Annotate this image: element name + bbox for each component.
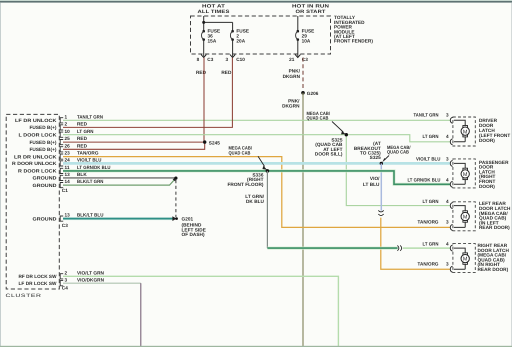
svg-text:LT GRN: LT GRN	[423, 241, 440, 246]
svg-text:FUSED B(+): FUSED B(+)	[30, 140, 57, 145]
svg-text:TAN/ORG: TAN/ORG	[418, 261, 439, 266]
wire TAN/ORG pin23 to left rear latch pin3	[63, 157, 450, 228]
svg-text:13: 13	[65, 213, 71, 218]
svg-text:BLK/LT BLU: BLK/LT BLU	[77, 213, 104, 218]
svg-text:LT GRN/DK BLU: LT GRN/DK BLU	[408, 178, 441, 183]
svg-text:RED: RED	[77, 143, 88, 148]
ground point G201	[172, 216, 206, 237]
svg-text:TAN/LT GRN: TAN/LT GRN	[414, 113, 439, 118]
svg-text:ALL TIMES: ALL TIMES	[198, 9, 231, 15]
wire fuse F36 to connector	[203, 40, 205, 57]
svg-text:24: 24	[65, 158, 71, 163]
label HOT AT ALL TIMES	[198, 4, 231, 16]
svg-text:DOOR): DOOR)	[479, 138, 495, 143]
svg-text:VIO/LT GRN: VIO/LT GRN	[77, 270, 105, 275]
pin bracket 14	[60, 183, 63, 188]
splice S325	[345, 133, 348, 136]
arrow to breakout splice	[382, 156, 389, 163]
wire VIO/LT GRN C4 pin2	[63, 276, 338, 346]
svg-text:RF DR LOCK SW: RF DR LOCK SW	[19, 274, 58, 279]
wire RED pin25 to S245	[63, 141, 205, 143]
pin bracket 26	[60, 147, 63, 152]
wire BLK/LT BLU C3 pin13 to G201	[63, 217, 173, 220]
svg-text:DKGRN: DKGRN	[282, 104, 300, 109]
label VIO/LT BLU mid	[363, 176, 380, 187]
svg-text:REAR DOOR): REAR DOOR)	[478, 267, 509, 272]
wire TAN/LT GRN pin1 to driver latch pin3	[63, 119, 450, 121]
power module box TIPM	[191, 16, 331, 54]
svg-text:4: 4	[446, 178, 449, 183]
wire PNK/DKGRN dashed segment	[302, 58, 304, 91]
svg-text:LF DR LOCK SW: LF DR LOCK SW	[19, 281, 58, 286]
svg-text:FUSED B(+): FUSED B(+)	[30, 125, 57, 130]
label RIGHT REAR DOOR LATCH (MEGA CAB/QUAD CAB) (IN RIGHT REAR DOOR)	[478, 243, 510, 272]
pin bracket 23	[60, 154, 63, 159]
label PASSENGER DOOR LATCH (RIGHT FRONT DOOR)	[479, 160, 509, 189]
fuse F36 15A	[202, 28, 221, 43]
svg-text:BLK: BLK	[77, 172, 87, 177]
svg-text:23: 23	[65, 151, 71, 156]
motor U1 driver door latch	[450, 117, 475, 146]
label (AT BREAKOUT TO C325) S325	[354, 141, 381, 160]
bus wire hot at all times	[204, 16, 233, 31]
splice S245	[203, 140, 220, 145]
splice G206	[301, 91, 319, 96]
svg-text:RED: RED	[196, 70, 207, 75]
wire TAN/ORG C325 to right rear latch pin3	[381, 218, 450, 270]
svg-text:M: M	[463, 129, 468, 135]
label HOT IN RUN OR START	[292, 4, 330, 16]
svg-text:GROUND: GROUND	[33, 217, 58, 222]
wire PNK/DKGRN main vertical	[302, 93, 304, 346]
svg-text:S325: S325	[370, 155, 381, 160]
svg-text:LT BLU: LT BLU	[363, 182, 380, 187]
svg-text:RED: RED	[221, 70, 232, 75]
svg-text:2: 2	[65, 122, 68, 127]
wire LT GRN pin10 to driver latch pin4	[63, 135, 450, 142]
wire RED fuse F36 to splice S245	[203, 58, 205, 143]
svg-text:G201: G201	[182, 217, 194, 222]
junction node ground join	[174, 177, 177, 180]
wire fuse F2 to connector	[232, 40, 234, 57]
svg-text:LR DR UNLOCK: LR DR UNLOCK	[14, 154, 57, 159]
svg-text:FUSED B(+): FUSED B(+)	[30, 147, 57, 152]
svg-text:VIO/LT BLU: VIO/LT BLU	[416, 157, 441, 162]
svg-text:M: M	[463, 172, 468, 178]
svg-text:LT GRN: LT GRN	[423, 134, 440, 139]
wire VIO/DKGRN vertical	[140, 283, 142, 346]
svg-text:DK BLU: DK BLU	[246, 199, 265, 204]
svg-text:VIO/DKGRN: VIO/DKGRN	[77, 277, 105, 282]
svg-text:S245: S245	[209, 140, 220, 145]
label MEGA CAB/QUAD CAB left	[229, 146, 253, 156]
inline connector right rear	[397, 245, 401, 250]
svg-text:R DOOR UNLOCK: R DOOR UNLOCK	[12, 161, 57, 166]
svg-text:3: 3	[446, 157, 449, 162]
svg-text:C3: C3	[62, 223, 68, 228]
splice S336	[266, 169, 270, 173]
svg-text:3: 3	[446, 219, 449, 224]
label DRIVER DOOR LATCH (LEFT FRONT DOOR)	[479, 118, 510, 143]
svg-text:HOT AT: HOT AT	[202, 4, 225, 10]
svg-text:OF DASH): OF DASH)	[182, 232, 205, 237]
svg-text:PNK/: PNK/	[289, 69, 301, 74]
svg-text:4: 4	[446, 134, 449, 139]
label MEGA CAB/QUAD CAB upper	[307, 111, 331, 121]
svg-text:10: 10	[65, 129, 71, 134]
label PNK/DKGRN upper	[283, 69, 301, 79]
label PNK/DKGRN lower	[282, 98, 300, 108]
svg-text:DKGRN: DKGRN	[283, 74, 301, 79]
svg-text:C3: C3	[207, 57, 213, 62]
pin bracket C4-2	[60, 274, 63, 279]
wire RED pin2 to fuse F2	[63, 58, 232, 128]
svg-text:GROUND: GROUND	[33, 183, 58, 188]
svg-text:C1: C1	[62, 188, 68, 193]
svg-text:3: 3	[226, 57, 229, 62]
svg-text:10A: 10A	[302, 39, 311, 44]
svg-text:FRONT FLOOR): FRONT FLOOR)	[227, 182, 263, 187]
svg-text:3: 3	[446, 113, 449, 118]
svg-text:8: 8	[197, 57, 200, 62]
wire S336 gray drop	[266, 171, 268, 248]
connector pin 8 C3	[197, 55, 214, 63]
wire LT GRN/DK BLU to inline connector	[267, 247, 397, 250]
arrow to splice S336	[258, 156, 267, 169]
wire fuse F29 to connector	[297, 40, 299, 57]
arrow to splice S325	[332, 122, 346, 135]
svg-text:M: M	[463, 215, 468, 221]
svg-text:RED: RED	[77, 122, 88, 127]
svg-text:QUAD CAB: QUAD CAB	[229, 150, 251, 155]
pin bracket 24	[60, 161, 63, 166]
label TOTALLY INTEGRATED POWER MODULE (AT LEFT FRONT FENDER)	[334, 15, 373, 44]
arrowhead BLK/LT GRN	[173, 178, 177, 182]
fuse F2 20A	[230, 28, 249, 43]
svg-text:4: 4	[446, 199, 449, 204]
label LEFT REAR DOOR LATCH (MEGA CAB/QUAD CAB) (IN LEFT REAR DOOR)	[479, 201, 511, 230]
svg-text:L DOOR LOCK: L DOOR LOCK	[19, 133, 58, 138]
pin bracket 11	[60, 168, 63, 173]
svg-text:3: 3	[65, 277, 68, 282]
svg-text:VIO/: VIO/	[370, 176, 380, 181]
svg-text:LT GRN/DK BLU: LT GRN/DK BLU	[77, 165, 111, 170]
svg-text:15A: 15A	[208, 39, 217, 44]
svg-text:BLK/LT GRN: BLK/LT GRN	[77, 179, 104, 184]
svg-text:TAN/ORG: TAN/ORG	[418, 219, 439, 224]
svg-text:HOT IN RUN: HOT IN RUN	[292, 4, 330, 10]
svg-text:R DOOR LOCK: R DOOR LOCK	[18, 169, 57, 174]
svg-text:GROUND: GROUND	[33, 176, 58, 181]
junction node on bus	[202, 21, 205, 24]
motor U4 right rear door latch	[450, 244, 475, 273]
wire BLK pin13	[63, 177, 176, 179]
wire VIO/LT BLU pin24 to passenger latch pin3	[63, 162, 450, 165]
wire BLK/LT GRN pin14	[63, 179, 175, 185]
svg-text:LF DR UNLOCK: LF DR UNLOCK	[15, 118, 57, 123]
wire LT GRN branch S325 to left rear latch pin4	[346, 135, 450, 206]
svg-text:LT GRN: LT GRN	[423, 199, 440, 204]
svg-text:PNK/: PNK/	[288, 98, 300, 103]
svg-text:TAN/ORG: TAN/ORG	[77, 151, 99, 156]
svg-text:4: 4	[446, 241, 449, 246]
svg-text:1: 1	[65, 114, 68, 119]
label MEGA CAB/QUAD CAB right	[387, 145, 411, 155]
connector pin 3 C10	[226, 55, 246, 63]
label LT GRN/DK BLU mid	[245, 194, 264, 204]
svg-text:20A: 20A	[236, 39, 245, 44]
svg-text:RED: RED	[77, 136, 88, 141]
svg-text:TAN/LT GRN: TAN/LT GRN	[77, 114, 104, 119]
svg-text:LT GRN: LT GRN	[77, 129, 94, 134]
fuse F29 10A	[296, 28, 315, 43]
svg-text:21: 21	[289, 57, 295, 62]
svg-text:2: 2	[65, 270, 68, 275]
svg-text:QUAD CAB: QUAD CAB	[387, 150, 409, 155]
svg-text:M: M	[463, 257, 468, 263]
pin bracket 10	[60, 132, 63, 137]
wire LT GRN/DK BLU pin11 to passenger latch pin4	[63, 171, 450, 184]
svg-text:C10: C10	[236, 57, 245, 62]
label S336 (RIGHT FRONT FLOOR)	[227, 172, 263, 187]
wire VIO/DKGRN C4 pin3 horizontal	[63, 282, 141, 284]
svg-text:C4: C4	[62, 286, 68, 291]
wire LT GRN connector to right rear latch pin4	[403, 247, 450, 249]
svg-text:14: 14	[65, 179, 71, 184]
svg-text:VIO/LT BLU: VIO/LT BLU	[77, 158, 102, 163]
svg-text:QUAD CAB: QUAD CAB	[307, 116, 329, 121]
svg-text:11: 11	[65, 165, 70, 170]
svg-text:CLUSTER: CLUSTER	[6, 293, 42, 299]
pin bracket C3-13	[60, 216, 63, 221]
cluster module box	[6, 114, 59, 289]
pin bracket 2	[60, 125, 63, 130]
label S325 (QUAD CAB AT LEFT DOOR SILL)	[315, 137, 343, 156]
pin bracket 25	[60, 140, 63, 145]
svg-text:3: 3	[446, 261, 449, 266]
svg-text:FRONT FENDER): FRONT FENDER)	[334, 39, 373, 44]
pin bracket 1	[60, 118, 63, 123]
inline connector C325 vertical	[378, 210, 383, 215]
svg-text:25: 25	[65, 136, 71, 141]
svg-text:OR START: OR START	[296, 9, 326, 15]
motor U2 passenger door latch	[450, 159, 475, 188]
svg-text:DOOR): DOOR)	[479, 184, 495, 189]
wire RED pin26 to S245	[63, 142, 205, 149]
wire VIO/LT BLU drop to C325	[380, 163, 382, 210]
connector pin 21 C3	[289, 55, 308, 63]
pin bracket 13	[60, 175, 63, 180]
dashed ground drop wire	[175, 180, 177, 217]
wire hot in run feed	[297, 16, 299, 31]
pin bracket C4-3	[60, 281, 63, 286]
motor U3 left rear door latch	[450, 202, 475, 231]
svg-text:13: 13	[65, 172, 71, 177]
svg-text:REAR DOOR): REAR DOOR)	[479, 225, 510, 230]
svg-text:DOOR SILL): DOOR SILL)	[315, 152, 343, 157]
svg-text:26: 26	[65, 143, 71, 148]
splice S325 breakout	[380, 162, 383, 165]
svg-text:G206: G206	[307, 91, 319, 96]
